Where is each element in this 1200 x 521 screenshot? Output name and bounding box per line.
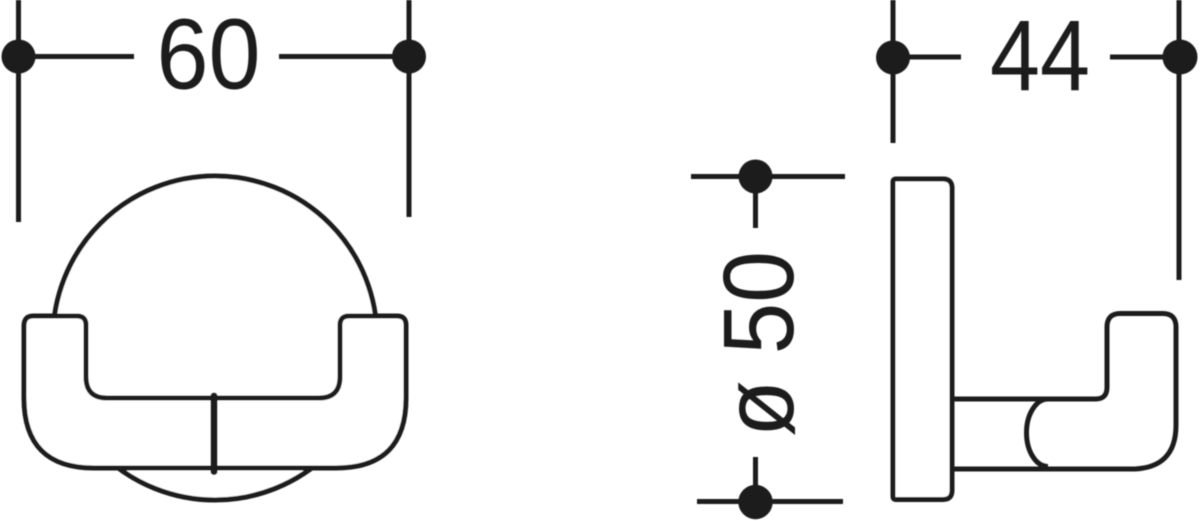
hook arm and J-hook outline (side view) [952, 314, 1176, 470]
dimension dot front left [2, 40, 36, 74]
circle backplate (front view) [53, 176, 377, 500]
svg-text:44: 44 [990, 0, 1090, 112]
dimension dot dia50 bottom [738, 485, 772, 519]
svg-text:ø 50: ø 50 [703, 251, 815, 437]
extension line right (side view, 44 dim) [1177, 0, 1182, 280]
dimension dot side left [876, 41, 910, 75]
hook body U-shape (front view) [24, 316, 406, 468]
dimension line 60 left segment [19, 54, 135, 59]
dimension dot side right [1163, 40, 1198, 75]
extension line right (front view, 60 dim) [407, 0, 412, 217]
svg-text:60: 60 [157, 0, 261, 111]
extension line top (side view, dia 50 dim) [691, 174, 845, 179]
centerline (front view) [211, 396, 218, 472]
dimension line 44 right segment [1110, 55, 1180, 60]
dimension dot dia50 top [739, 160, 773, 194]
dimension line 60 right segment [279, 54, 409, 59]
dimension line dia50 lower stub [753, 457, 758, 502]
dimension line 44 left segment [893, 55, 961, 60]
extension line left (side view, 44 dim) [891, 0, 896, 143]
hook bend arc (side view) [1027, 399, 1049, 467]
extension line left (front view, 60 dim) [16, 0, 21, 222]
extension line bottom (side view, dia 50 dim) [697, 499, 843, 504]
dimension dot front right [392, 40, 426, 74]
dimension line dia50 upper stub [753, 177, 758, 229]
wall plate (side view) [893, 179, 952, 500]
